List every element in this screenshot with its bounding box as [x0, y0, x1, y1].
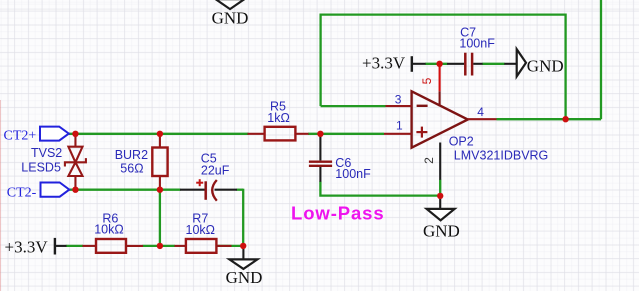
power +3.3V left	[5, 238, 67, 257]
svg-text:GND: GND	[226, 268, 263, 287]
junction output feedback	[562, 116, 568, 122]
capacitor C5 22uF polarized	[180, 151, 237, 200]
junction CT2- at BUR2	[157, 187, 163, 193]
power +3.3V top	[362, 54, 426, 73]
svg-text:Low-Pass: Low-Pass	[291, 203, 385, 224]
op-amp pin 3 inverting	[386, 92, 412, 106]
wire R7 to GND junction	[216, 245, 243, 247]
wire C7 to GND	[482, 63, 504, 65]
svg-text:22uF: 22uF	[201, 163, 230, 177]
wire +3.3V to R6	[66, 245, 83, 247]
label CT2- port	[7, 183, 70, 201]
junction CT2+ at TVS	[72, 131, 78, 137]
wire output rising to sheet top	[600, 0, 602, 119]
wire C5 to R7 vertical	[242, 189, 244, 249]
svg-text:100nF: 100nF	[335, 167, 371, 181]
ground symbol right of C7	[504, 49, 563, 76]
junction R7 GND node	[240, 243, 246, 249]
junction R6 R7 node	[157, 243, 163, 249]
wire CT2+ net right of R5	[308, 133, 384, 135]
wire CT2- net	[69, 189, 180, 191]
wire C5 right segment	[237, 189, 244, 191]
junction CT2- at TVS	[72, 187, 78, 193]
wire C6 bottom to pin2 ground net	[320, 181, 440, 195]
svg-text:1kΩ: 1kΩ	[267, 111, 290, 125]
op-amp OP2 LMV321IDBVRG	[412, 91, 549, 162]
junction CT2+ at BUR2	[157, 131, 163, 137]
svg-text:+3.3V: +3.3V	[362, 54, 406, 73]
svg-text:GND: GND	[423, 221, 460, 240]
op-amp pin 4 output	[468, 105, 497, 119]
capacitor C7 100nF	[447, 26, 495, 76]
svg-text:LESD5: LESD5	[21, 161, 61, 175]
svg-text:TVS2: TVS2	[31, 146, 62, 160]
label CT2+ port	[4, 127, 69, 144]
svg-text:2: 2	[422, 157, 436, 164]
svg-text:10kΩ: 10kΩ	[186, 223, 216, 237]
svg-text:3: 3	[395, 92, 402, 106]
wire R6 to R7	[143, 245, 176, 247]
svg-text:CT2-: CT2-	[7, 185, 37, 200]
svg-text:CT2+: CT2+	[4, 128, 37, 143]
resistor BUR2 56ohm	[115, 135, 168, 190]
svg-text:LMV321IDBVRG: LMV321IDBVRG	[454, 149, 548, 163]
wire +3.3V supply to C7	[425, 63, 447, 65]
svg-text:GND: GND	[527, 57, 564, 76]
junction pin2 ground net	[437, 193, 443, 199]
svg-text:BUR2: BUR2	[115, 148, 148, 162]
svg-text:5: 5	[420, 77, 434, 84]
op-amp pin 2 V-	[422, 143, 440, 180]
op-amp pin 1 non-inverting	[384, 118, 412, 133]
wire BUR2 bottom to resistor row	[159, 190, 161, 246]
capacitor C6 100nF	[309, 136, 371, 182]
resistor R7 10k	[175, 211, 232, 252]
svg-text:10kΩ: 10kΩ	[94, 223, 124, 237]
wire op-amp output net	[497, 118, 602, 120]
ground symbol below R7	[226, 248, 263, 287]
junction CT2+ at C6	[317, 131, 323, 137]
ground symbol below op-amp	[423, 198, 460, 240]
wire op-amp inverting input net	[321, 105, 386, 107]
resistor R5 1k	[248, 100, 309, 141]
junction +3.3V at pin5	[436, 61, 442, 67]
resistor R6 10k	[83, 211, 144, 252]
svg-text:56Ω: 56Ω	[120, 162, 143, 176]
svg-text:+3.3V: +3.3V	[5, 238, 49, 257]
diode TVS2 LESD5	[21, 135, 86, 189]
sheet border left edge	[0, 100, 2, 291]
wire feedback loop	[321, 15, 566, 120]
svg-text:4: 4	[477, 105, 484, 119]
wire CT2+ net left	[69, 133, 249, 135]
wire op-amp pin2 to ground net	[439, 180, 441, 196]
svg-text:OP2: OP2	[449, 134, 474, 148]
op-amp pin 5 V+	[420, 65, 440, 107]
ground symbol top (clipped)	[212, 0, 249, 27]
svg-text:GND: GND	[212, 8, 249, 27]
svg-text:100nF: 100nF	[459, 37, 495, 51]
svg-text:1: 1	[396, 118, 403, 132]
